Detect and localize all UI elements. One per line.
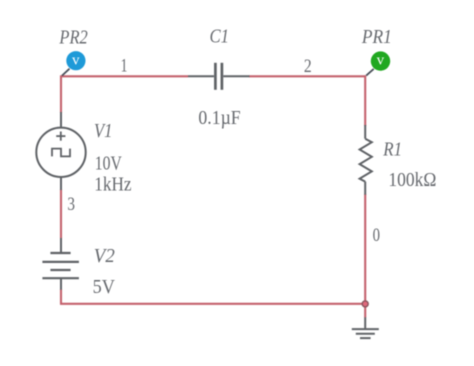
svg-text:10V: 10V xyxy=(95,154,122,175)
wire: bottom horizontal (node 0) xyxy=(60,303,365,305)
probe PR2 xyxy=(62,51,86,76)
junction node 0 xyxy=(362,301,368,307)
svg-text:1: 1 xyxy=(121,56,128,77)
svg-text:3: 3 xyxy=(67,194,75,215)
svg-text:1kHz: 1kHz xyxy=(94,175,131,196)
capacitor C1 xyxy=(188,63,250,90)
svg-text:V1: V1 xyxy=(94,121,112,142)
wire: right vertical upper (node 2) xyxy=(364,75,366,126)
svg-text:R1: R1 xyxy=(382,140,402,161)
battery V2 xyxy=(42,238,79,290)
svg-text:PR1: PR1 xyxy=(361,27,392,48)
source V1 xyxy=(36,112,85,190)
svg-text:5V: 5V xyxy=(93,277,115,298)
wire: top left horizontal (node 1) xyxy=(61,75,188,77)
wire: left vertical between V1 and V2 (node 3) xyxy=(60,189,62,239)
svg-text:PR2: PR2 xyxy=(59,28,88,49)
svg-text:C1: C1 xyxy=(210,26,230,47)
svg-text:0.1µF: 0.1µF xyxy=(198,108,240,129)
svg-text:v: v xyxy=(377,53,385,69)
svg-text:v: v xyxy=(72,52,80,68)
ground xyxy=(352,317,379,338)
resistor R1 xyxy=(360,125,372,195)
wire: right vertical below R1 (node 0) xyxy=(364,194,366,318)
wire: left vertical below V2 (node 0) xyxy=(60,289,62,304)
probe PR1 xyxy=(366,51,390,75)
wire: top right horizontal (node 2) xyxy=(249,75,365,77)
svg-text:V2: V2 xyxy=(94,246,115,267)
svg-text:100kΩ: 100kΩ xyxy=(388,170,436,191)
wire: left vertical upper (node 1) xyxy=(60,75,62,113)
svg-text:2: 2 xyxy=(304,56,312,77)
svg-text:0: 0 xyxy=(373,225,380,246)
